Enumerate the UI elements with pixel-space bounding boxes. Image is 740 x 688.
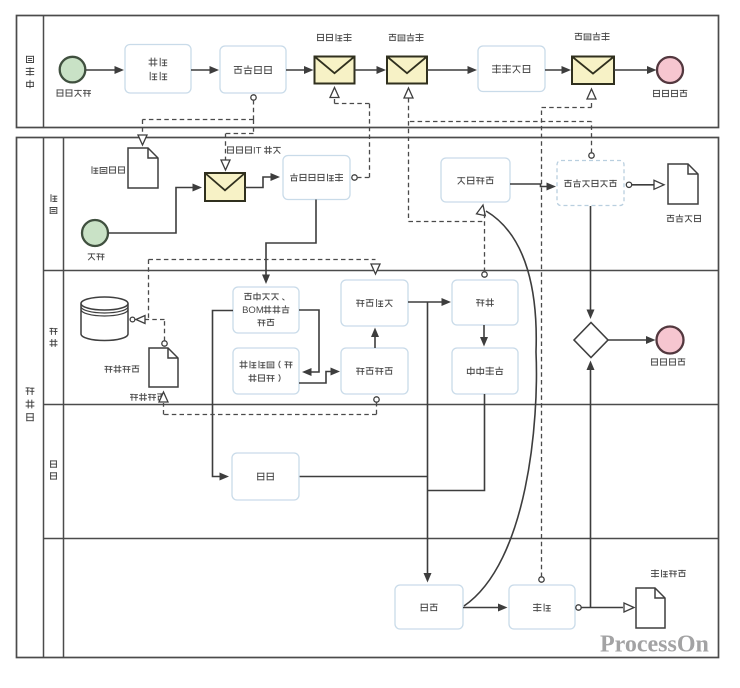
assoc 電子發票發佈->電子發票 [626, 180, 664, 189]
flow 下載發票->關聯信息B [545, 66, 571, 74]
arrow into 完成 [424, 573, 432, 583]
flow 動態分組->文件生成 [299, 368, 340, 384]
flow 訂單確認->關聯信息 [355, 66, 387, 74]
task 下載發票 [478, 46, 545, 92]
flow 電子發票發佈->diamond [587, 206, 595, 319]
flow 文件分發->生產 [408, 298, 451, 306]
watermark ProcessOn [600, 632, 709, 658]
task 運輸 [509, 585, 575, 629]
end event 訂單完成 2 [652, 327, 685, 366]
flow 映射屬性->動態分組 [299, 310, 319, 376]
flow 電子訂單->訂單確認 [286, 66, 314, 74]
flow 發票建立->電子發票發佈 [510, 183, 556, 191]
message 關聯信息 A [387, 34, 427, 84]
flow 產品配置->電子訂單 [191, 66, 219, 74]
flow 關聯信息B->訂單完成 [614, 66, 657, 74]
flow junction->完成 vertical [427, 302, 429, 578]
flow 運輸->diamond [587, 361, 595, 608]
flow 驗證訂單確認->映射屬性 [262, 200, 316, 285]
task 映射屬性BOM和路由生成 [233, 287, 299, 333]
lane 生產 [44, 328, 719, 404]
task 文件生成 [341, 348, 408, 394]
flow 新訂單IT系統->驗證訂單確認 [245, 173, 280, 188]
start event 訂單開始 [57, 57, 90, 97]
flow 購買->junction [299, 476, 428, 478]
flow 表現登記->junction [428, 394, 485, 491]
flow 生產->表現登記 [480, 325, 488, 347]
data 銷售訂單 [92, 148, 158, 188]
task 購買 [232, 453, 299, 500]
msgflow 電子訂單->銷售訂單 [138, 95, 256, 145]
task 電子訂單 [220, 46, 286, 93]
flow diamond->訂單完成2 [608, 336, 656, 344]
data 電子發票 [667, 164, 700, 222]
msgflow 驗證訂單確認->訂單確認 [330, 88, 370, 181]
flow 關聯信息->下載發票 [427, 66, 477, 74]
msgflow 生產->關聯信息A [404, 88, 485, 222]
start event 開始 [82, 220, 108, 260]
svg-text:IT: IT [253, 145, 262, 156]
task 文件分發 [341, 280, 408, 326]
task 電子發票發佈 dashed [557, 161, 624, 206]
msgflow 電子發票發佈->關聯信息A [409, 122, 595, 159]
msgflow 電子訂單->新訂單IT系統 [221, 120, 254, 171]
flow 完成->運輸 [463, 604, 508, 612]
end event 訂單完成 [654, 57, 687, 97]
msgflow 運輸->關聯信息B [539, 89, 596, 582]
assoc dashed ->文件分發 [149, 260, 381, 320]
pool customer 客戶端 [17, 16, 719, 128]
task 發票建立 [441, 158, 510, 202]
datastore cylinder [81, 297, 139, 373]
flow 文件生成->文件分發 [371, 328, 379, 349]
task 生產 [452, 280, 518, 325]
svg-text:BOM: BOM [242, 305, 264, 316]
task 完成 [395, 585, 463, 629]
assoc 文件生成->生產文件 [159, 392, 379, 415]
pool main 主流程 [17, 138, 719, 658]
data 生產文件 [131, 348, 179, 401]
lane 銷售 [44, 195, 719, 271]
flow 映射屬性->購買 [213, 311, 234, 481]
assoc 生產文件->datastore [130, 316, 167, 347]
task 產品配置 [125, 45, 191, 94]
msgflow 生產->發票建立 [482, 212, 487, 277]
flow start->產品配置 [86, 66, 124, 74]
task 動態分組製造優化 [233, 348, 299, 394]
open arrow into 發票建立 [477, 205, 486, 216]
curve 完成->發票建立 [464, 211, 536, 606]
message 關聯信息 B [572, 33, 614, 84]
message 訂單確認 [315, 34, 355, 84]
assoc 運輸->運輸文件 [576, 603, 634, 612]
task 驗證訂單確認 [283, 156, 350, 200]
gateway diamond [574, 323, 608, 358]
lane 購買 [44, 461, 719, 539]
data 運輸文件 [636, 570, 685, 628]
task 表現登記 [452, 348, 518, 394]
svg-text:ProcessOn: ProcessOn [600, 632, 709, 658]
flow 開始->新訂單IT系統 [108, 184, 202, 234]
message 新訂單IT系統 [205, 145, 280, 201]
